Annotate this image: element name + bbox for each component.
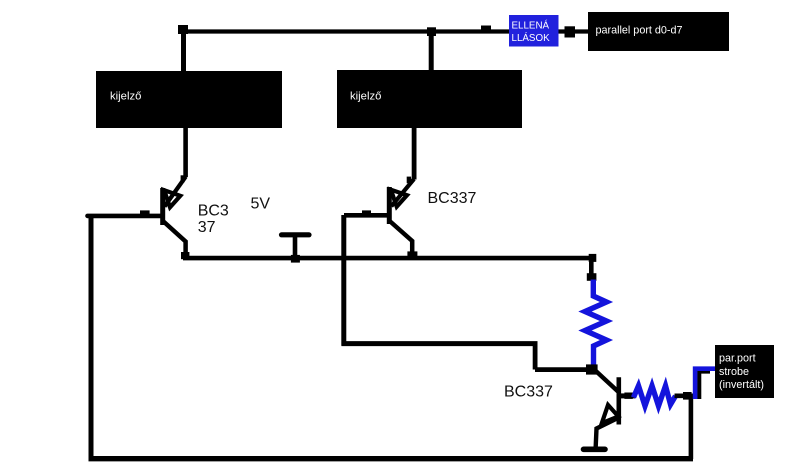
svg-text:(invertált): (invertált) bbox=[719, 379, 764, 391]
wire emitter rail bbox=[183, 256, 593, 261]
Q3 emitter bbox=[596, 419, 617, 450]
Q2 arrow bbox=[391, 190, 407, 207]
box par.port strobe (invertalt) bbox=[715, 345, 774, 398]
Q2 emitter bbox=[390, 222, 412, 256]
Q1 emitter bbox=[164, 222, 186, 256]
node 5V on emitter rail bbox=[291, 255, 300, 263]
wire junction to bottom rail bbox=[689, 397, 694, 459]
Q3 base wire bbox=[621, 393, 635, 398]
svg-text:5V: 5V bbox=[251, 196, 271, 213]
stub on Q1 collector wire bbox=[181, 175, 185, 182]
display box kijelzo 1 bbox=[96, 71, 282, 128]
connector tick on top rail bbox=[481, 26, 491, 32]
node strobe junction bbox=[683, 392, 692, 400]
svg-text:kijelző: kijelző bbox=[350, 91, 381, 103]
connector tick between ELLENALLASOK and parallel port box bbox=[565, 26, 576, 37]
svg-text:BC337: BC337 bbox=[428, 190, 477, 207]
tick on Q2 base wire bbox=[362, 210, 371, 215]
svg-text:strobe: strobe bbox=[719, 366, 749, 378]
wire drop from top rail to display 2 bbox=[429, 33, 434, 71]
stub on Q2 collector wire bbox=[407, 177, 411, 184]
transistor Q1 bar bbox=[160, 188, 165, 225]
Q1 collector diagonal bbox=[165, 177, 186, 207]
node Q1 emitter corner bbox=[181, 252, 189, 259]
node Q2 emitter corner bbox=[407, 251, 417, 258]
label Q1 BC3 37 bbox=[198, 203, 229, 237]
transistor Q3 bar bbox=[616, 377, 621, 424]
Q2 base wire bbox=[344, 213, 389, 218]
Q3 arrow bbox=[602, 405, 619, 423]
tick on R1 top lead bbox=[587, 273, 597, 281]
svg-text:37: 37 bbox=[198, 219, 216, 236]
power 5V stem bbox=[293, 236, 298, 257]
tick on Q3 base wire bbox=[624, 393, 632, 399]
box parallel port d0-d7 bbox=[588, 12, 729, 51]
wire lower horizontal to resistor node bbox=[535, 367, 592, 372]
Q3 collector diagonal bbox=[595, 370, 619, 392]
wire Q2 base drop bbox=[341, 215, 346, 346]
tick on Q1 base wire bbox=[140, 210, 150, 215]
wire display2 bottom to Q2 collector bbox=[412, 128, 417, 180]
box ELLENALLASOK (resistor bank) bbox=[509, 15, 559, 47]
display box kijelzo 2 bbox=[337, 70, 522, 128]
node top-left cap bbox=[178, 25, 188, 34]
wire R1 top lead black bbox=[589, 258, 594, 279]
node R1 top on emitter rail bbox=[589, 254, 597, 262]
wire R2 right lead bbox=[675, 393, 695, 398]
wire mid horizontal bbox=[342, 341, 538, 346]
wire top rail bbox=[180, 29, 590, 33]
wire mid step down bbox=[533, 343, 538, 370]
svg-text:par.port: par.port bbox=[719, 353, 756, 365]
node junction top rail / display 2 drop bbox=[427, 27, 436, 36]
transistor Q2 bar bbox=[387, 187, 392, 224]
wire drop from top rail to display 1 bbox=[181, 29, 186, 72]
wire strobe jog black part bbox=[699, 372, 710, 400]
power 5V bar bbox=[282, 232, 310, 237]
svg-text:BC3: BC3 bbox=[198, 203, 229, 220]
ground bar bbox=[584, 446, 606, 452]
svg-text:ELLENÁ: ELLENÁ bbox=[512, 20, 550, 31]
Q2 collector diagonal bbox=[391, 179, 414, 206]
wire strobe jog blue part bbox=[695, 369, 716, 399]
resistor R1 bbox=[585, 280, 607, 369]
Q1 base wire bbox=[88, 214, 163, 219]
wire left rail vertical bbox=[89, 216, 94, 459]
svg-text:parallel port d0-d7: parallel port d0-d7 bbox=[596, 24, 683, 36]
Q1 arrow bbox=[164, 190, 180, 207]
svg-text:kijelző: kijelző bbox=[110, 91, 141, 103]
resistor R2 bbox=[634, 386, 676, 406]
wire display1 bottom to Q1 collector bbox=[183, 128, 188, 177]
node R1 bottom junction bbox=[586, 364, 598, 374]
svg-text:BC337: BC337 bbox=[504, 383, 553, 400]
svg-text:LLÁSOK: LLÁSOK bbox=[512, 33, 551, 44]
wire bottom rail bbox=[89, 456, 694, 461]
